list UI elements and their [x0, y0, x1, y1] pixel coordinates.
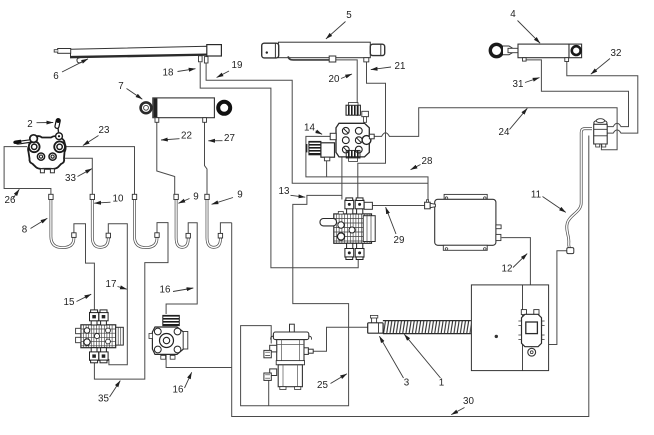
svg-text:19: 19 [232, 60, 243, 71]
svg-text:24: 24 [499, 127, 510, 138]
svg-text:31: 31 [513, 79, 524, 90]
svg-text:32: 32 [611, 48, 622, 59]
svg-text:35: 35 [98, 394, 109, 405]
svg-text:3: 3 [404, 378, 410, 389]
svg-text:6: 6 [53, 71, 59, 82]
svg-text:8: 8 [22, 225, 28, 236]
svg-text:20: 20 [329, 74, 340, 85]
svg-text:23: 23 [99, 125, 110, 136]
svg-text:18: 18 [163, 68, 174, 79]
svg-text:10: 10 [113, 194, 124, 205]
svg-text:13: 13 [279, 186, 290, 197]
svg-text:26: 26 [5, 195, 16, 206]
svg-text:5: 5 [346, 10, 352, 21]
svg-text:21: 21 [395, 61, 406, 72]
svg-text:1: 1 [439, 378, 444, 389]
svg-text:33: 33 [65, 173, 76, 184]
svg-text:16: 16 [160, 285, 171, 296]
svg-text:27: 27 [224, 133, 235, 144]
svg-text:12: 12 [502, 264, 513, 275]
svg-text:9: 9 [193, 192, 198, 203]
svg-text:9: 9 [237, 190, 242, 201]
svg-text:17: 17 [106, 279, 117, 290]
svg-text:22: 22 [181, 131, 192, 142]
svg-text:15: 15 [64, 297, 75, 308]
svg-text:25: 25 [317, 380, 328, 391]
svg-text:11: 11 [531, 190, 541, 201]
svg-text:4: 4 [510, 9, 516, 20]
svg-text:28: 28 [422, 156, 433, 167]
svg-text:16: 16 [173, 385, 184, 396]
svg-text:29: 29 [394, 235, 405, 246]
svg-text:2: 2 [27, 119, 32, 130]
svg-text:30: 30 [463, 396, 474, 407]
svg-text:7: 7 [118, 81, 123, 92]
svg-text:14: 14 [304, 123, 315, 134]
